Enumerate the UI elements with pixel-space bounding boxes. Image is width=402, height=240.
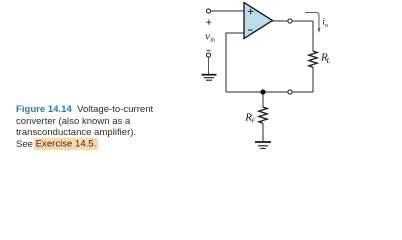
svg-text:F: F bbox=[250, 117, 256, 124]
svg-text:in: in bbox=[210, 37, 215, 43]
svg-text:L: L bbox=[326, 57, 331, 65]
svg-text:o: o bbox=[325, 22, 328, 29]
